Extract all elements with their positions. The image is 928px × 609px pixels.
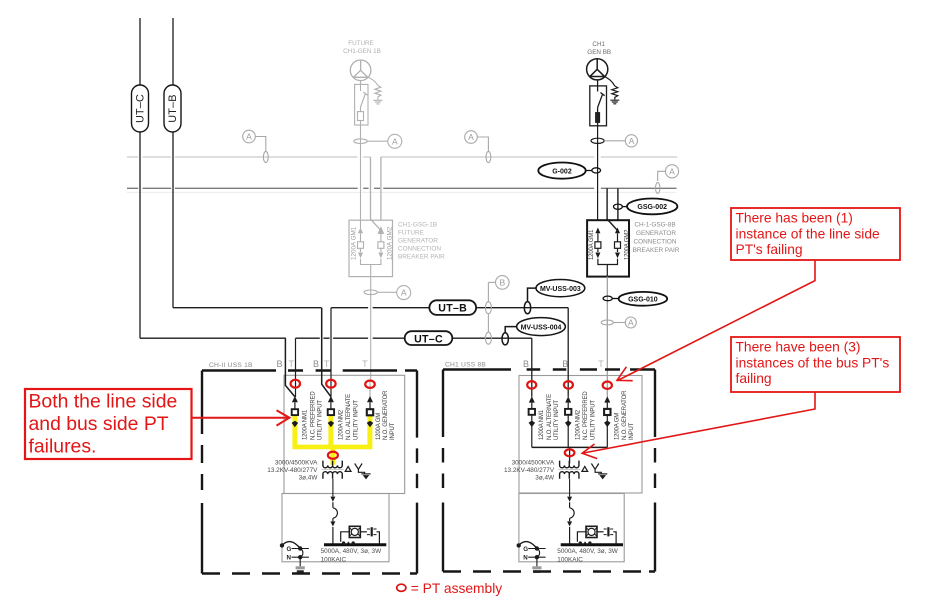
wire drop below breaker pair to USS BB	[606, 277, 608, 381]
svg-text:5000A, 480V, 3ø, 3W: 5000A, 480V, 3ø, 3W	[321, 548, 382, 555]
svg-text:A: A	[669, 166, 675, 176]
PT assembly oval (feeder 1R)	[527, 381, 536, 389]
wire drop to transformer (right)	[569, 447, 571, 463]
annotation leader to transformer PT (right)	[582, 392, 815, 459]
feeder 1R: wire drop from UT-C	[531, 338, 533, 397]
G/N service bond (left)	[281, 542, 309, 567]
wire gray riser x=488 from bus1 down to UT-C run	[485, 282, 491, 344]
wire UT-C feeder (vertical + horizontal run)	[140, 18, 532, 338]
transformer 3000/4500KVA (right)	[558, 461, 580, 479]
svg-text:CH1-GSG-1B: CH1-GSG-1B	[398, 222, 437, 229]
svg-text:UTILITY INPUT: UTILITY INPUT	[353, 400, 359, 440]
node B tag circle on riser	[488, 276, 509, 290]
legend: red oval = PT assembly	[397, 581, 503, 596]
svg-text:UT–C: UT–C	[135, 94, 147, 123]
PT assembly oval (feeder 2R)	[564, 381, 573, 389]
node UT-C stadium label (top)	[132, 85, 149, 132]
svg-text:1200A NM1: 1200A NM1	[539, 409, 545, 440]
svg-text:N: N	[523, 555, 528, 562]
svg-text:FUTURE: FUTURE	[348, 40, 374, 47]
svg-text:A: A	[629, 136, 635, 146]
node MV-USS-004 oval tag	[502, 318, 565, 345]
feeder 1: wire B drop + blade	[285, 338, 294, 396]
node A tag on bus 2 (right)	[656, 165, 679, 194]
svg-text:T: T	[289, 359, 295, 369]
breaker GM1 (future)	[358, 228, 364, 259]
svg-text:PT's failing: PT's failing	[736, 242, 803, 257]
svg-text:T: T	[324, 359, 330, 369]
breaker (future gen breaker, gray)	[355, 81, 368, 125]
svg-text:MV-USS-004: MV-USS-004	[521, 324, 562, 331]
svg-text:A: A	[468, 132, 474, 142]
svg-text:N.O. ALTERNATE: N.O. ALTERNATE	[346, 394, 352, 440]
breaker GM2 (existing)	[615, 228, 621, 259]
wye symbol + ground (right)	[591, 464, 607, 479]
annotation leader to feeder 3R PT	[617, 260, 815, 381]
svg-text:1200A GM: 1200A GM	[376, 413, 382, 440]
svg-text:failing: failing	[736, 371, 772, 386]
svg-text:There have been (3): There have been (3)	[736, 340, 861, 355]
svg-text:GENERATOR: GENERATOR	[398, 238, 438, 245]
wye symbol + ground	[355, 464, 371, 479]
node ellipse + A tag on GSG-010 drop	[601, 317, 636, 328]
dashed enclosure CH-II USS 1B	[202, 371, 417, 574]
label CH-1-GSG-8B GENERATOR CONNECTION BREAKER PAIR	[633, 222, 680, 255]
PT assembly oval (feeder 1 line side)	[291, 380, 300, 388]
svg-text:5000A, 480V, 3ø, 3W: 5000A, 480V, 3ø, 3W	[557, 548, 618, 555]
wire transformer secondary drop (right)	[569, 479, 571, 497]
inner switchgear box (lower, right)	[519, 494, 624, 562]
svg-text:MV-USS-003: MV-USS-003	[540, 286, 581, 293]
transformer 3000/4500KVA (left)	[322, 461, 344, 479]
annotation box: There has been (1) instance of the line side PT's failing	[731, 208, 900, 260]
delta symbol	[345, 466, 351, 471]
label 3000/4500KVA 13.2KV-480/277V 3Φ,4W (right)	[504, 460, 555, 482]
node UT-B stadium label (mid-run)	[429, 300, 476, 315]
generator G (existing)	[587, 59, 608, 80]
grounding resistor + ground (future, gray)	[366, 77, 382, 104]
breaker pair box CH1-GSG-1B (future, gray)	[349, 220, 393, 276]
breaker NM1 (arrow + drawout square)	[292, 396, 298, 427]
svg-text:B: B	[276, 359, 282, 369]
node MV-USS-003 oval tag	[524, 280, 585, 314]
svg-text:BREAKER PAIR: BREAKER PAIR	[633, 247, 680, 254]
feeder 1: wire T drop	[295, 338, 297, 397]
node G-002 oval tag	[538, 163, 600, 179]
svg-text:3000/4500KVA: 3000/4500KVA	[275, 460, 318, 467]
svg-text:1200A GM1: 1200A GM1	[351, 226, 358, 260]
svg-text:UTILITY INPUT: UTILITY INPUT	[318, 400, 324, 440]
svg-text:GSG-002: GSG-002	[637, 204, 667, 211]
svg-text:Both the line side: Both the line side	[29, 390, 178, 412]
svg-text:N.O. GENERATOR: N.O. GENERATOR	[622, 390, 628, 440]
480V main bus bar (right)	[561, 543, 623, 546]
480V main bus bar (left)	[324, 543, 386, 546]
wire GM1/GM2 bottom tie + drop (future)	[361, 259, 381, 380]
svg-text:100KAIC: 100KAIC	[321, 556, 347, 563]
inner switchgear box (upper, right)	[519, 376, 642, 494]
svg-text:T: T	[598, 359, 604, 369]
svg-text:There has been (1): There has been (1)	[736, 211, 853, 226]
G/N service bond (right)	[517, 542, 545, 567]
svg-text:CH-II USS 1B: CH-II USS 1B	[209, 362, 253, 369]
svg-text:= PT assembly: = PT assembly	[411, 581, 502, 596]
grounding resistor + ground (existing)	[603, 76, 619, 104]
svg-text:UTILITY INPUT: UTILITY INPUT	[590, 400, 596, 440]
ground symbol (left USS)	[296, 566, 305, 573]
svg-text:N.O. GENERATOR: N.O. GENERATOR	[383, 390, 389, 440]
svg-text:B: B	[562, 359, 568, 369]
generator G (future, gray)	[350, 60, 371, 81]
main breaker (arrow-arc-arrow, right)	[567, 497, 574, 544]
label 3000/4500KVA 13.2KV-480/277V 3Φ,4W	[267, 460, 318, 482]
svg-text:3ø,4W: 3ø,4W	[535, 475, 555, 482]
ground symbol (right USS)	[532, 566, 541, 573]
wire 13.2kV tie bus (right USS)	[532, 446, 608, 448]
svg-text:UT–C: UT–C	[414, 333, 443, 345]
svg-text:G: G	[523, 546, 528, 553]
bus 1 (upper 13.2kV bus, light gray)	[127, 156, 677, 158]
svg-text:BREAKER PAIR: BREAKER PAIR	[398, 254, 445, 261]
svg-text:UTILITY INPUT: UTILITY INPUT	[554, 400, 560, 440]
svg-text:GENERATOR: GENERATOR	[636, 230, 676, 237]
node ellipse + A tag on future drop	[364, 286, 411, 300]
svg-text:GSG-010: GSG-010	[628, 297, 658, 304]
svg-text:N: N	[287, 555, 292, 562]
svg-text:1200A GM1: 1200A GM1	[589, 229, 595, 260]
wire transformer secondary drop (left)	[332, 479, 334, 497]
label 5000A, 480V, 3Φ, 3W 100KAIC (right)	[557, 548, 618, 563]
PT assembly oval (feeder 3)	[365, 381, 375, 388]
svg-text:CONNECTION: CONNECTION	[634, 239, 677, 246]
bus 2 (lower 13.2kV bus, gray)	[127, 187, 677, 189]
wire UT-B feeder (vertical + horizontal run)	[173, 18, 568, 308]
svg-text:GEN BB: GEN BB	[587, 49, 611, 56]
node A tag on bus 1 (center-right)	[465, 131, 491, 163]
svg-text:instances of the bus PT's: instances of the bus PT's	[736, 355, 890, 370]
svg-text:1200A GM: 1200A GM	[615, 413, 621, 440]
wire GM1/GM2 bottom tie + drop to GSG-010	[598, 259, 618, 277]
svg-text:1200A NM2: 1200A NM2	[338, 409, 344, 440]
svg-text:B: B	[313, 359, 319, 369]
svg-text:CONNECTION: CONNECTION	[398, 246, 441, 253]
svg-text:3000/4500KVA: 3000/4500KVA	[512, 460, 555, 467]
breaker GM (arrow + drawout square)	[367, 396, 373, 427]
breaker GM R (arrow + drawout square)	[604, 396, 610, 447]
node UT-B stadium label (top)	[164, 85, 181, 132]
feeder 2: wire B drop + blade	[322, 308, 331, 397]
svg-text:G: G	[287, 546, 292, 553]
breaker NM1 R (arrow + drawout square)	[529, 396, 535, 447]
delta symbol (right)	[582, 466, 588, 471]
faint scan line under bus 2	[127, 191, 676, 193]
svg-text:B: B	[523, 359, 529, 369]
node ellipse + A tag on gen drop	[591, 135, 638, 147]
feeder 2: wire T drop	[330, 308, 332, 397]
yellow highlight bus (left USS)	[292, 415, 372, 465]
PT assembly oval (feeder 3R)	[603, 382, 612, 389]
svg-text:1200A GM2: 1200A GM2	[387, 226, 394, 260]
feeder 3: wire T drop (future gray)	[369, 381, 371, 398]
svg-text:B: B	[499, 278, 505, 288]
node A tag on bus 1 (left)	[243, 130, 268, 162]
svg-text:INPUT: INPUT	[629, 422, 635, 440]
breaker (gen breaker, existing)	[590, 80, 607, 126]
svg-text:failures.: failures.	[29, 435, 97, 457]
wire bus1 to GM2 (future riser with crossover)	[371, 157, 381, 231]
svg-text:UT–B: UT–B	[167, 94, 179, 122]
node ellipse + A tag on future gen drop	[354, 134, 402, 148]
svg-text:A: A	[246, 132, 252, 142]
svg-text:instance of the line side: instance of the line side	[736, 226, 881, 241]
node GSG-010 oval tag	[603, 292, 667, 306]
svg-text:N.O. ALTERNATE: N.O. ALTERNATE	[547, 394, 553, 440]
svg-text:13.2KV-480/277V: 13.2KV-480/277V	[504, 467, 555, 474]
svg-text:1200A GM2: 1200A GM2	[624, 229, 630, 260]
breaker pair box CH-1-GSG-8B (existing)	[587, 220, 629, 276]
node UT-C stadium label (mid-run)	[405, 331, 453, 345]
feeder 2R: wire drop from UT-B	[567, 308, 569, 397]
feeder 3R: wire drop from GSG-010 (gray)	[606, 381, 608, 397]
breaker NM2 R (arrow + drawout square)	[565, 396, 571, 447]
svg-text:13.2KV-480/277V: 13.2KV-480/277V	[267, 467, 318, 474]
breaker GM2 (future)	[378, 228, 384, 259]
breaker NM2 (arrow + drawout square)	[328, 396, 334, 427]
inner switchgear box (upper)	[284, 375, 405, 493]
dashed enclosure CH1 USS BB	[443, 370, 655, 572]
svg-text:1200A NM2: 1200A NM2	[576, 409, 582, 440]
annotation arrow (left box to NM1 breaker)	[192, 410, 290, 425]
svg-text:T: T	[362, 359, 368, 369]
wire future gen drop to GM1	[360, 125, 362, 228]
svg-text:A: A	[628, 318, 634, 328]
svg-text:A: A	[392, 136, 398, 146]
label 5000A, 480V, 3Φ, 3W 100KAIC (left)	[321, 548, 382, 563]
svg-text:CH1: CH1	[592, 41, 605, 48]
svg-text:1200A NM1: 1200A NM1	[302, 409, 308, 440]
svg-text:100KAIC: 100KAIC	[557, 556, 583, 563]
breaker GM1 (existing)	[595, 228, 601, 259]
CT / meter detail (right)	[577, 526, 616, 544]
svg-text:UT–B: UT–B	[438, 303, 467, 315]
svg-text:G-002: G-002	[552, 168, 572, 175]
svg-text:INPUT: INPUT	[390, 422, 396, 440]
CT / meter detail (left)	[341, 526, 380, 544]
svg-text:FUTURE: FUTURE	[398, 230, 424, 237]
annotation box: Both the line side and bus side PT failures.	[25, 389, 192, 459]
annotation box: There have been (3) instances of the bus PT's failing	[731, 337, 900, 392]
svg-text:3ø,4W: 3ø,4W	[299, 475, 319, 482]
svg-text:A: A	[401, 288, 407, 298]
PT assembly oval (feeder 2 line side)	[326, 380, 335, 388]
label CH1-GSG-1B FUTURE GENERATOR CONNECTION BREAKER PAIR	[398, 222, 445, 261]
PT assembly oval (transformer primary, right)	[565, 449, 575, 456]
svg-text:and bus side PT: and bus side PT	[29, 413, 169, 435]
wire gen drop to GM1 (existing)	[597, 126, 599, 220]
svg-text:N.C. PREFERRED: N.C. PREFERRED	[311, 391, 317, 440]
svg-text:CH1 USS 8B: CH1 USS 8B	[445, 362, 486, 369]
main breaker (arrow-arc-arrow, left)	[330, 497, 337, 544]
wire bus2 to GM2 (riser with crossover)	[607, 188, 618, 230]
inner switchgear box (lower)	[282, 494, 389, 562]
svg-text:N.C. PREFERRED: N.C. PREFERRED	[583, 391, 589, 440]
svg-text:CH1-GEN 1B: CH1-GEN 1B	[343, 48, 381, 55]
node GSG-002 oval tag	[614, 199, 678, 215]
PT assembly oval (transformer primary, left)	[328, 452, 338, 459]
svg-text:CH-1-GSG-8B: CH-1-GSG-8B	[634, 222, 675, 229]
